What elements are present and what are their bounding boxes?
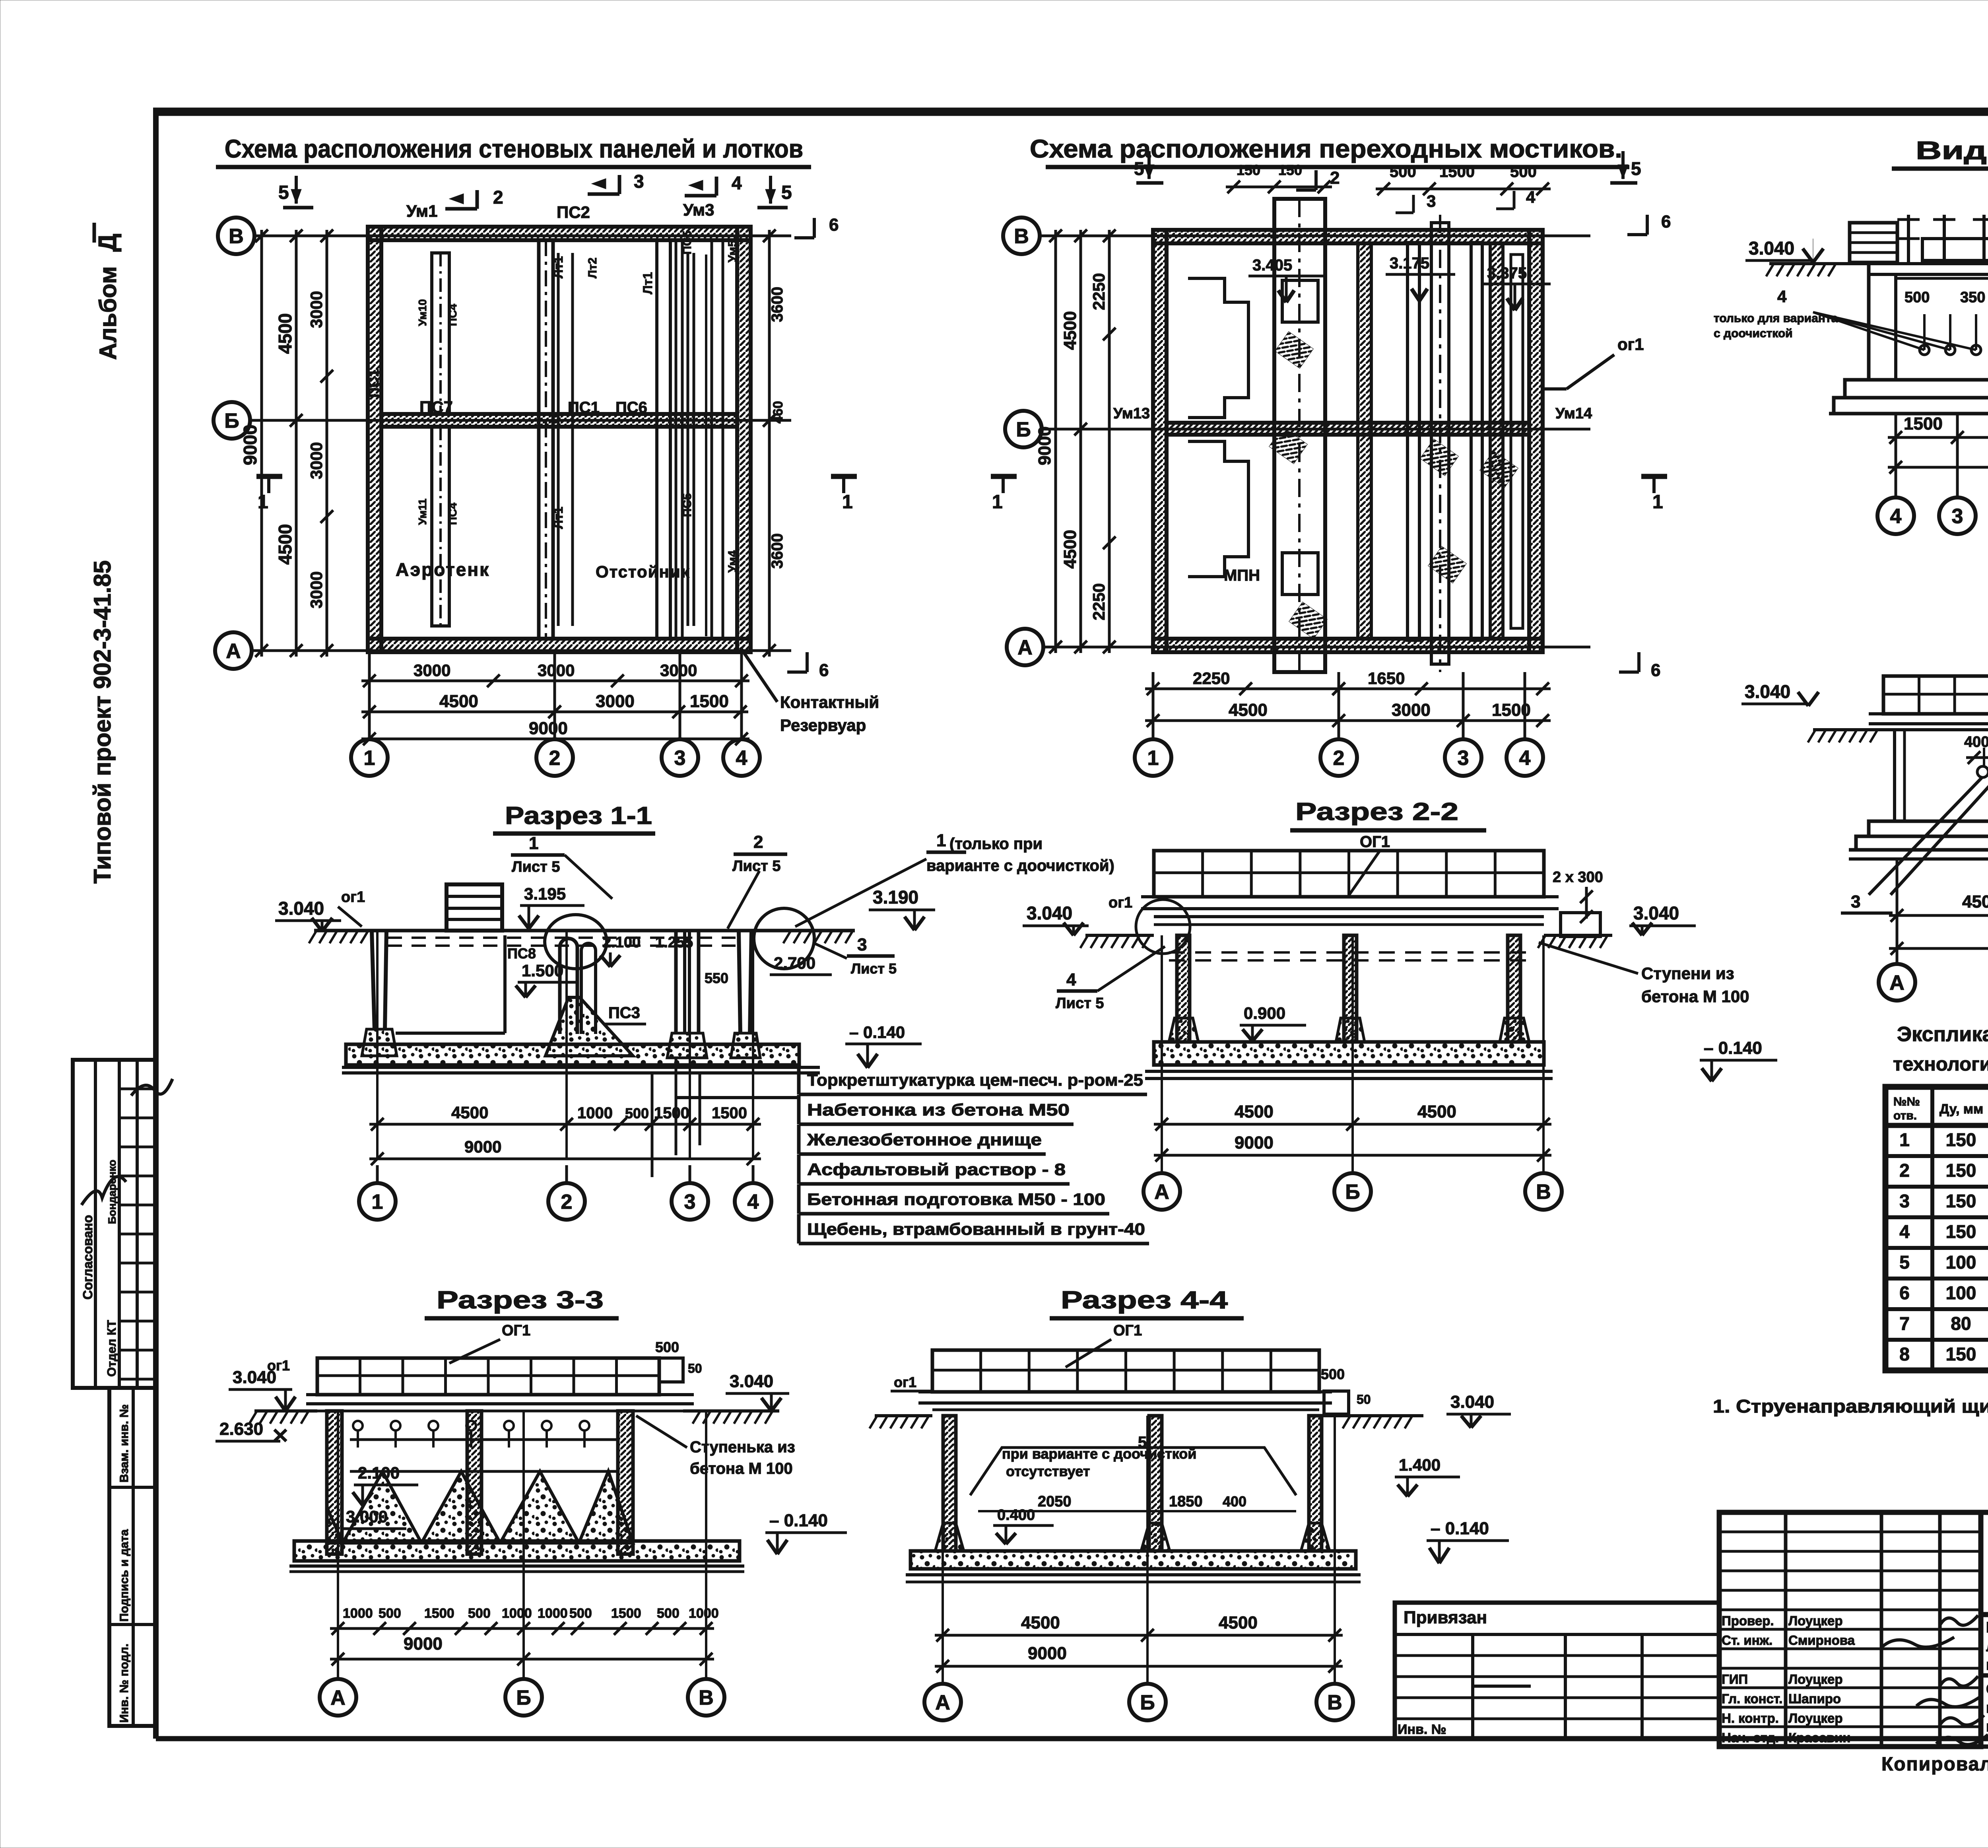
svg-text:ПС5: ПС5 (681, 493, 694, 517)
view 6-6 base slabs (1849, 821, 1988, 859)
section 1-1 right wall (731, 931, 760, 1058)
svg-text:Резервуар: Резервуар (780, 716, 866, 735)
svg-text:2.630: 2.630 (219, 1419, 263, 1439)
svg-text:2: 2 (549, 747, 561, 770)
svg-text:ПС4: ПС4 (447, 503, 459, 525)
section 1-1 full height axis lines (377, 931, 753, 1159)
svg-text:4500: 4500 (1021, 1613, 1060, 1632)
svg-text:3.000: 3.000 (346, 1507, 388, 1526)
section 1-1 detail circle right (754, 908, 814, 969)
plan 1 right dimension chain (763, 229, 786, 657)
svg-text:3: 3 (1952, 505, 1963, 528)
svg-text:500: 500 (468, 1606, 491, 1621)
svg-text:1500: 1500 (1439, 163, 1475, 181)
view 5-5 internal dims and leaders (1714, 278, 1988, 355)
svg-text:500: 500 (1510, 163, 1537, 181)
svg-text:3000: 3000 (307, 571, 326, 608)
view 5-5 elevation 3.040 (1745, 238, 1823, 262)
svg-text:500: 500 (379, 1606, 401, 1621)
plan 1 label Kontaktny rezervuar (740, 647, 879, 735)
svg-text:Красавин: Красавин (1788, 1730, 1850, 1745)
svg-text:Отстойник: Отстойник (596, 562, 690, 581)
svg-text:Подпись и дата: Подпись и дата (118, 1529, 131, 1622)
svg-text:Аэротенк: Аэротенк (396, 559, 490, 580)
svg-text:Лт1: Лт1 (551, 256, 565, 278)
svg-text:Альбом: Альбом (95, 266, 121, 360)
svg-text:ГИП: ГИП (1722, 1672, 1748, 1687)
svg-text:350: 350 (1960, 289, 1985, 306)
svg-text:9000: 9000 (1028, 1644, 1067, 1663)
svg-text:2: 2 (1330, 168, 1340, 188)
plan 2 bridge MPN (vertical walkway) (1274, 199, 1325, 672)
svg-text:3.040: 3.040 (730, 1372, 773, 1391)
svg-text:500: 500 (569, 1606, 592, 1621)
svg-text:Ум14: Ум14 (1555, 405, 1592, 422)
svg-text:Набетонка из бетона М50: Набетонка из бетона М50 (807, 1100, 1070, 1119)
svg-text:№№: №№ (1893, 1095, 1920, 1108)
view 6-6 upper dims (1964, 734, 1988, 816)
svg-text:ПС1: ПС1 (365, 369, 382, 398)
section 3-3 ground left/right (249, 1411, 779, 1424)
svg-text:2: 2 (561, 1191, 573, 1214)
svg-text:Лист 5: Лист 5 (1056, 995, 1104, 1012)
section 1-1 ground line (309, 931, 855, 946)
svg-text:ПС4: ПС4 (447, 304, 459, 326)
svg-text:Железобетонное днище: Железобетонное днище (807, 1130, 1042, 1149)
section 3-3 funnels (327, 1471, 633, 1543)
svg-text:(только при: (только при (949, 835, 1043, 853)
section 1-1 callout 1 (tolko pri variante s doochistkoy) (795, 831, 1114, 927)
section 2-2 inner elevation 0.900 (1240, 1004, 1306, 1041)
svg-text:3: 3 (1427, 192, 1436, 210)
plan 1 outer walls (hatched) (368, 227, 751, 652)
section 2-2 elevation 3.040 right (1629, 903, 1696, 935)
section 4-4 walls (935, 1416, 1330, 1551)
svg-text:Б: Б (1016, 418, 1031, 441)
section 4-4 og1 left (891, 1374, 932, 1391)
svg-text:– 0.140: – 0.140 (1704, 1038, 1762, 1058)
plan 2 top dimensions (1226, 162, 1551, 195)
svg-text:500: 500 (625, 1105, 649, 1121)
svg-text:3000: 3000 (307, 442, 326, 479)
section 2-2 axis circles (1143, 935, 1562, 1210)
bottom note: kopiroval (1881, 1748, 1988, 1775)
section 3-3 elevation 3.040 left (229, 1368, 295, 1411)
svg-text:Схема расположения переходны: Схема расположения переходных мостиков. (1030, 134, 1622, 163)
svg-text:9000: 9000 (464, 1137, 501, 1156)
svg-text:1850: 1850 (1169, 1493, 1203, 1510)
title block: sheet description (1981, 1675, 1988, 1747)
section 4-4 slab lines (918, 1392, 1332, 1410)
svg-text:4: 4 (1899, 1221, 1910, 1242)
svg-text:4500: 4500 (439, 692, 478, 711)
view 6-6 slab lines (1869, 714, 1988, 730)
svg-text:150: 150 (1946, 1191, 1976, 1211)
svg-text:3: 3 (857, 935, 867, 954)
svg-text:4: 4 (736, 747, 747, 770)
plan 2 left dimension chains (1035, 229, 1116, 653)
section 4-4 elevation -0.140 (1427, 1519, 1509, 1563)
section 3-3 elevation -0.140 right (765, 1511, 847, 1554)
svg-text:500: 500 (1390, 163, 1416, 181)
svg-text:Б: Б (1345, 1181, 1360, 1204)
svg-text:Ум4: Ум4 (726, 550, 739, 573)
plan 2 section marks (991, 151, 1671, 680)
svg-text:1: 1 (842, 492, 853, 513)
plan 1 axis circle V (218, 218, 254, 254)
svg-text:6: 6 (1651, 661, 1660, 680)
section 3-3 bottom slab (289, 1541, 744, 1572)
svg-text:4: 4 (1526, 188, 1536, 206)
svg-text:4500: 4500 (1417, 1102, 1456, 1121)
svg-text:Бетонная подготовка М50 - 10: Бетонная подготовка М50 - 100 (807, 1190, 1105, 1209)
svg-text:3.040: 3.040 (233, 1368, 276, 1387)
svg-text:3.040: 3.040 (1450, 1392, 1494, 1412)
svg-text:1500: 1500 (712, 1104, 747, 1122)
view 5-5 body walls (1869, 264, 1988, 380)
svg-text:В: В (229, 225, 244, 248)
section 1-1 middle column (667, 931, 707, 1058)
svg-text:Бондаренко: Бондаренко (106, 1160, 118, 1224)
svg-text:только для варианта: только для варианта (1714, 312, 1838, 325)
section 4-4 elevation 3.040 right (1446, 1392, 1511, 1428)
svg-text:4: 4 (1777, 287, 1787, 306)
svg-text:3.405: 3.405 (1252, 257, 1292, 274)
svg-text:6: 6 (819, 661, 829, 680)
svg-text:400: 400 (1964, 734, 1988, 750)
section 4-4 railing band (932, 1350, 1319, 1392)
svg-text:В: В (1536, 1181, 1551, 1204)
svg-text:1: 1 (364, 747, 375, 770)
svg-text:Контактный: Контактный (780, 693, 879, 711)
section 4-4 inner trapezoid note (970, 1434, 1296, 1495)
section 1-1 title (493, 802, 655, 834)
svg-text:6: 6 (1661, 212, 1671, 231)
svg-text:Блок емкостей для станции: Блок емкостей для станции био- (1986, 1619, 1988, 1636)
svg-text:4: 4 (1890, 505, 1902, 528)
svg-text:ПС7: ПС7 (419, 398, 453, 416)
svg-text:А: А (935, 1691, 950, 1714)
svg-text:Шапиро: Шапиро (1788, 1691, 1841, 1706)
section 3-3 walls (327, 1411, 633, 1554)
plan 2 stepped tank edge (left cell) (1188, 278, 1248, 577)
svg-text:3000: 3000 (596, 692, 635, 711)
svg-text:2: 2 (1333, 747, 1345, 770)
section 4-4 title (1050, 1286, 1244, 1367)
svg-text:1000: 1000 (502, 1606, 532, 1621)
plan 1 extra channel lines (558, 253, 694, 626)
svg-text:– 0.140: – 0.140 (849, 1023, 905, 1042)
svg-text:Асфальтовый раствор - 8: Асфальтовый раствор - 8 (807, 1160, 1066, 1179)
svg-text:460: 460 (771, 401, 786, 424)
view 5-5 top panel stacks (1850, 215, 1988, 262)
svg-text:Копировал Еремченко: Копировал Еремченко (1881, 1754, 1988, 1775)
svg-text:А: А (330, 1687, 346, 1710)
section 4-4 bottom slab (906, 1551, 1361, 1582)
svg-text:2: 2 (1899, 1160, 1910, 1181)
svg-text:3.040: 3.040 (278, 898, 324, 919)
section 2-2 railing band (1154, 851, 1544, 897)
svg-text:150: 150 (1946, 1129, 1976, 1150)
plan 1 title: Shema raspolozheniya stenovyh paneley i lotkov (216, 134, 811, 167)
svg-text:2250: 2250 (1089, 583, 1108, 620)
plan 1 axis line A (251, 649, 791, 652)
svg-text:1500: 1500 (611, 1606, 641, 1621)
section 2-2 label stupeni iz betona M100 (1539, 942, 1749, 1006)
svg-text:Б: Б (1140, 1691, 1155, 1714)
view 5-5 ground line and hatch (1766, 264, 1988, 276)
plan 2 label Um13 (1113, 405, 1150, 422)
margin stamp box: Soglasovano (73, 1060, 173, 1388)
svg-text:1.400: 1.400 (1399, 1455, 1441, 1474)
svg-text:2 х 300: 2 х 300 (1553, 869, 1603, 886)
table: hole explication (1885, 1087, 1988, 1370)
svg-text:500: 500 (657, 1606, 679, 1621)
plan 2 right inner wall strip (1490, 243, 1523, 639)
svg-text:3000: 3000 (1392, 700, 1431, 720)
plan 1 left dimension chains (240, 229, 333, 657)
svg-text:5: 5 (781, 182, 792, 203)
svg-text:2.100: 2.100 (603, 934, 641, 951)
section 3-3 inner dims 2.100 и 3.000 (342, 1463, 418, 1529)
plan 1 axis line V (254, 235, 791, 237)
svg-text:А: А (226, 640, 241, 663)
svg-text:2250: 2250 (1193, 669, 1230, 688)
svg-text:Инв. № подл.: Инв. № подл. (118, 1644, 131, 1723)
section 3-3 stupenka label (636, 1416, 795, 1477)
svg-text:3.040: 3.040 (1745, 681, 1790, 702)
plan 1 middle wall on axis B (381, 414, 737, 427)
svg-text:6: 6 (829, 215, 839, 235)
view 6-6 axis circles A,B,V (1879, 859, 1988, 1001)
plan 2 grid circles 1-4 (1135, 672, 1543, 776)
title block: signature table (1719, 1512, 1988, 1747)
svg-text:Лт1: Лт1 (551, 507, 565, 529)
svg-text:Ум3: Ум3 (683, 200, 714, 219)
svg-text:150: 150 (1946, 1221, 1976, 1242)
svg-text:Взам. инв. №: Взам. инв. № (118, 1404, 131, 1483)
section 3-3 top extras (267, 1339, 702, 1382)
plan 1 section marks (256, 171, 857, 680)
svg-text:ог1: ог1 (1617, 335, 1644, 354)
svg-text:4500: 4500 (451, 1103, 488, 1122)
svg-text:2.700: 2.700 (774, 954, 815, 972)
section 3-3 elevation 3.040 right (726, 1372, 789, 1411)
svg-text:Б: Б (224, 410, 239, 433)
section 1-1 elevation 3.190 right (869, 887, 935, 930)
svg-text:4500: 4500 (1235, 1102, 1274, 1121)
plan 1 top labels (365, 200, 739, 573)
section 1-1 funnel (pebble fill) (546, 997, 633, 1056)
section 4-4 mid dims (978, 1455, 1460, 1544)
svg-text:1500: 1500 (690, 692, 729, 711)
svg-text:5: 5 (278, 182, 289, 203)
svg-text:4500: 4500 (1229, 700, 1268, 720)
svg-text:Ум5: Ум5 (726, 240, 739, 262)
svg-text:50: 50 (688, 1361, 702, 1376)
plan 1 internal wall Lt strip (657, 240, 682, 639)
svg-text:1500: 1500 (654, 1104, 689, 1122)
svg-text:Смирнова: Смирнова (1788, 1633, 1855, 1648)
section 2-2 tank walls (1169, 935, 1529, 1042)
section 2-2 elevation -0.140 right (1700, 1038, 1777, 1081)
svg-text:Ст. инж.: Ст. инж. (1722, 1633, 1773, 1648)
svg-text:Торкретштукатурка цем-песч. р-: Торкретштукатурка цем-песч. р-ром-25 (807, 1071, 1143, 1089)
svg-text:400: 400 (1223, 1493, 1246, 1510)
svg-text:ПС8: ПС8 (507, 945, 536, 962)
section 2-2 slab lines (1141, 897, 1559, 925)
plan 2 middle wall (1167, 423, 1529, 435)
svg-text:3000: 3000 (414, 661, 450, 680)
svg-text:3.195: 3.195 (524, 884, 566, 903)
section 2-2 callout 4 list 5 (1056, 946, 1165, 1012)
svg-text:ог1: ог1 (894, 1374, 916, 1390)
svg-text:2050: 2050 (1038, 1493, 1072, 1510)
svg-text:Экспликация отверстий: Экспликация отверстий (1897, 1023, 1988, 1046)
svg-text:80: 80 (1951, 1313, 1971, 1334)
svg-text:9000: 9000 (240, 425, 260, 465)
title block: privyazan box (1395, 1603, 1719, 1739)
svg-text:3.040: 3.040 (1749, 238, 1794, 258)
section 1-1 og1 label (338, 889, 365, 927)
margin vertical text: Album II (93, 223, 122, 360)
svg-text:3: 3 (684, 1191, 696, 1214)
section 3-3 axis circles (320, 1411, 724, 1716)
plan 2 axis circle V (1003, 218, 1040, 254)
svg-text:Н. контр.: Н. контр. (1722, 1711, 1779, 1726)
svg-text:ПС2: ПС2 (557, 203, 590, 222)
svg-text:1. Струенаправляющий щит на: 1. Струенаправляющий щит на разрезе 3-3 … (1713, 1396, 1988, 1417)
plan 1 axis circle B (214, 402, 250, 439)
svg-text:бетона М 100: бетона М 100 (1641, 987, 1749, 1006)
svg-text:1500: 1500 (1904, 414, 1943, 433)
view 6-6 ground and hatch (1808, 730, 1988, 742)
svg-text:Разрез 4-4: Разрез 4-4 (1061, 1286, 1228, 1314)
svg-text:4500: 4500 (1219, 1613, 1258, 1632)
plan 2 cross-hatch patches (1269, 332, 1518, 639)
svg-text:6: 6 (1899, 1283, 1910, 1303)
svg-text:3600: 3600 (769, 533, 786, 569)
svg-text:с доочисткой: с доочисткой (1714, 327, 1793, 340)
section 1-1 bottom dims (369, 1103, 761, 1165)
svg-text:ПС3: ПС3 (608, 1004, 640, 1022)
section 3-3 railing band (317, 1358, 659, 1395)
svg-text:100: 100 (1946, 1252, 1976, 1273)
svg-text:4500: 4500 (275, 313, 295, 354)
svg-text:3.175: 3.175 (1390, 255, 1429, 272)
svg-text:500: 500 (1321, 1366, 1345, 1382)
plan 2 central wall strip (1358, 243, 1371, 639)
plan 2 label og1 with leader (1542, 335, 1644, 389)
svg-text:1.500: 1.500 (522, 961, 563, 980)
svg-text:Щебень, втрамбованный в грунт-: Щебень, втрамбованный в грунт-40 (807, 1220, 1145, 1238)
margin vertical text: Tipovoy proekt 902-3-41.85 (89, 560, 116, 884)
svg-text:1650: 1650 (1368, 669, 1405, 688)
svg-text:ог1: ог1 (1109, 894, 1132, 911)
svg-text:А: А (1017, 636, 1033, 659)
section 4-4 axis circles (924, 1416, 1353, 1720)
svg-text:550: 550 (705, 970, 728, 986)
section 1-1 inner dims (507, 934, 897, 1024)
construction layers list (676, 1065, 1149, 1244)
svg-text:В: В (1014, 225, 1029, 248)
svg-text:Вид 5-5: Вид 5-5 (1916, 136, 1988, 165)
svg-text:3.040: 3.040 (1633, 903, 1679, 923)
svg-text:150: 150 (1237, 162, 1260, 178)
svg-text:мостиков. Разрезы: мостиков. Разрезы (1986, 1718, 1988, 1735)
svg-text:4500: 4500 (1060, 311, 1080, 350)
plan 2 axis line A (1043, 646, 1590, 649)
section 4-4 bottom dims (935, 1613, 1343, 1673)
svg-text:Лт2: Лт2 (586, 258, 599, 278)
svg-text:Согласовано: Согласовано (80, 1215, 95, 1300)
svg-text:2: 2 (493, 187, 503, 208)
plan 2 label MPN (1224, 567, 1260, 584)
svg-text:ПС5: ПС5 (681, 231, 694, 255)
svg-text:4500: 4500 (1060, 530, 1080, 569)
plan 2 bridge 2 strips (1408, 215, 1482, 672)
svg-text:150: 150 (1946, 1160, 1976, 1181)
svg-text:ПС1: ПС1 (568, 399, 600, 416)
view 6-6 elevation 3.040 (1741, 681, 1819, 706)
svg-text:Отдел КТ: Отдел КТ (105, 1320, 118, 1377)
svg-text:– 0.140: – 0.140 (1431, 1519, 1489, 1538)
section 3-3 9000 dim (330, 1634, 714, 1665)
svg-text:100: 100 (1946, 1283, 1976, 1303)
plan 1 grid circles 1-4 (351, 652, 760, 776)
svg-text:Ум11: Ум11 (416, 499, 429, 525)
plan 2 axis line V (1040, 235, 1590, 237)
svg-text:Инв. №: Инв. № (1398, 1722, 1446, 1737)
view 5-5 grid circles 4,3,2,1 (1877, 414, 1988, 534)
svg-text:2250: 2250 (1089, 273, 1108, 310)
margin strip: Vzam inv / Podpis i data / Inv N podl (109, 1388, 156, 1726)
svg-text:3: 3 (1458, 747, 1469, 770)
svg-text:8: 8 (1899, 1344, 1910, 1364)
svg-text:Привязан: Привязан (1404, 1608, 1487, 1627)
svg-text:логической очистки сточных: логической очистки сточных вод (1986, 1638, 1988, 1655)
svg-text:Лоуцкер: Лоуцкер (1788, 1711, 1843, 1726)
section 2-2 ground and hatch (1080, 935, 1612, 960)
plan 1 room label Aerotenk (396, 559, 490, 580)
section 3-3 slab lines (306, 1395, 694, 1411)
plan 1 axis circle A (215, 632, 252, 669)
svg-text:Провер.: Провер. (1722, 1613, 1774, 1628)
svg-text:0.900: 0.900 (1244, 1004, 1285, 1022)
plan 1 bottom dimension rows (361, 661, 749, 745)
svg-text:Д: Д (93, 233, 122, 252)
svg-text:отв.: отв. (1893, 1109, 1917, 1122)
svg-text:3.375: 3.375 (1487, 264, 1527, 282)
svg-text:при варианте с доочисткой: при варианте с доочисткой (1002, 1446, 1196, 1462)
plan 2 axis circle A (1007, 629, 1043, 665)
section 1-1 minus 0.140 mark (845, 1023, 922, 1068)
view 6-6 railing band (1883, 676, 1988, 714)
svg-text:Лист 5: Лист 5 (732, 858, 780, 874)
section 2-2 bottom slab (1145, 1042, 1553, 1078)
svg-text:1500: 1500 (424, 1606, 454, 1621)
svg-text:3000: 3000 (307, 291, 326, 328)
svg-text:1000: 1000 (343, 1606, 373, 1621)
svg-text:5: 5 (1134, 158, 1144, 179)
svg-text:50: 50 (1357, 1392, 1371, 1407)
section 4-4 right side dims (1321, 1366, 1371, 1414)
plan 1 um strips between axes 1-2 (416, 253, 459, 626)
plan 2 elevation marks on plan (1248, 255, 1551, 310)
svg-text:1: 1 (992, 492, 1003, 513)
svg-text:1000: 1000 (689, 1606, 719, 1621)
svg-text:Лоуцкер: Лоуцкер (1788, 1672, 1843, 1687)
